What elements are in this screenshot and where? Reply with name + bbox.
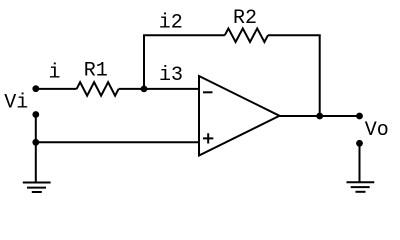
node i3 junction: [141, 86, 148, 93]
op-amp inverting pin mark -: [203, 91, 213, 93]
resistor R1: [77, 82, 119, 96]
op-amp U1: [199, 76, 280, 156]
node left branch junction: [32, 139, 39, 146]
wire feedback top right segment: [268, 34, 321, 36]
svg-text:R2: R2: [233, 7, 257, 30]
wire feedback vertical right: [319, 35, 321, 116]
svg-text:i2: i2: [159, 12, 183, 35]
wire feedback top left segment: [143, 34, 225, 36]
svg-text:i: i: [49, 61, 61, 84]
resistor R2: [225, 28, 268, 42]
node output junction: [316, 113, 323, 120]
op-amp non-inverting pin mark +: [203, 133, 213, 143]
wire to op-amp non-inverting input: [36, 141, 199, 143]
wire node i3 to op-amp inverting input: [144, 88, 199, 90]
svg-text:Vi: Vi: [4, 92, 28, 115]
wire feedback vertical left: [143, 35, 145, 89]
node Vi terminal: [32, 85, 39, 92]
node left mid terminal: [32, 111, 39, 118]
node Vo terminal: [356, 113, 363, 120]
node right lower terminal: [356, 140, 363, 147]
wire op-amp output: [280, 115, 360, 117]
wire R1 to node i3: [119, 88, 144, 90]
wire left vertical to ground: [35, 115, 37, 183]
svg-text:i3: i3: [159, 64, 183, 87]
svg-text:Vo: Vo: [365, 119, 389, 142]
ground right: [347, 182, 375, 192]
wire Vi to R1: [36, 88, 77, 90]
svg-text:R1: R1: [84, 60, 108, 83]
ground left: [23, 183, 51, 193]
wire right vertical to ground: [359, 143, 361, 182]
